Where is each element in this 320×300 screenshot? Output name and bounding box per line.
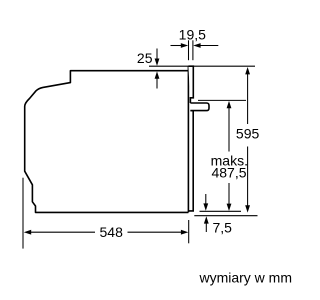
dimension 595: [245, 67, 250, 213]
extension lines for 19,5 above door: [188, 40, 190, 60]
dimension 7,5: [203, 194, 208, 232]
svg-text:wymiary w mm: wymiary w mm: [198, 269, 292, 285]
thin extension line: door top / 25 / 595 reference at y=66.2: [149, 65, 255, 67]
dimension 25: [155, 49, 160, 89]
svg-text:7,5: 7,5: [213, 220, 233, 236]
oven front face vertical: [187, 66, 189, 212]
control panel (top front): [188, 66, 193, 103]
dimension 548: [24, 230, 189, 235]
thin extension line: handle top (maks. 487,5 reference): [198, 99, 246, 101]
svg-text:25: 25: [137, 50, 153, 66]
oven body outline: [25, 71, 189, 213]
svg-text:487,5: 487,5: [211, 165, 246, 181]
extension line left for 548: [22, 178, 24, 249]
svg-text:595: 595: [236, 126, 260, 142]
door front face below handle: [188, 111, 193, 211]
door handle: [190, 103, 209, 111]
dimension maks. 487,5: [227, 101, 232, 211]
extension line right for 548: [188, 220, 190, 243]
dimension 19,5: [171, 43, 219, 48]
thin extension line: door bottom level: [200, 210, 242, 212]
svg-text:19,5: 19,5: [179, 26, 206, 42]
thin line: furniture bottom level (7,5 lower): [194, 215, 257, 217]
svg-text:548: 548: [100, 224, 124, 240]
